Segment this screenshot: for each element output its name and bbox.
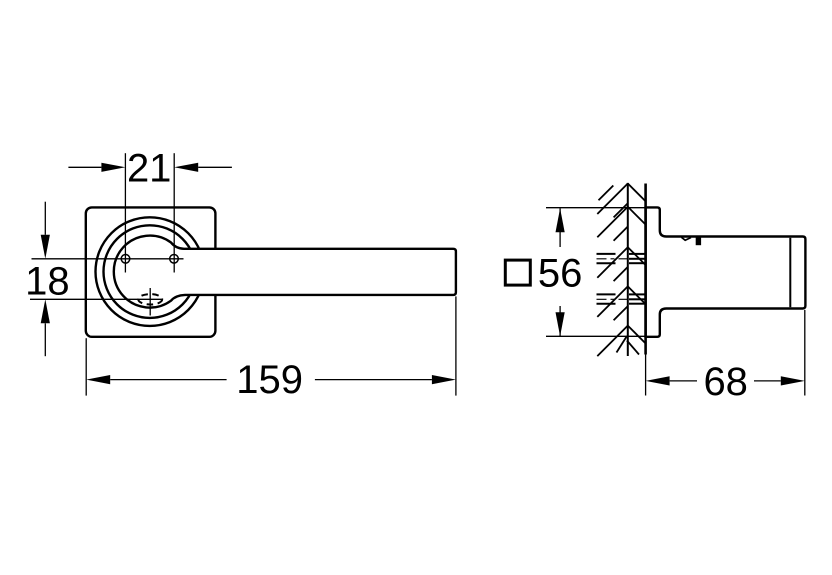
svg-text:68: 68 [703, 360, 748, 404]
svg-text:56: 56 [538, 251, 583, 295]
svg-text:159: 159 [236, 358, 303, 402]
svg-text:21: 21 [127, 147, 172, 191]
svg-text:18: 18 [25, 259, 70, 303]
